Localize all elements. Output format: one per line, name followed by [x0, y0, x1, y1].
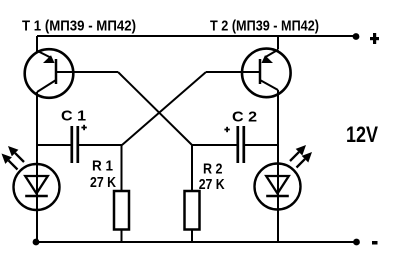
svg-text:R 1: R 1	[92, 159, 113, 175]
svg-text:Т 2 (МП39 - МП42): Т 2 (МП39 - МП42)	[210, 18, 319, 35]
svg-text:12V: 12V	[346, 122, 378, 147]
svg-text:R 2: R 2	[203, 162, 223, 178]
svg-text:C 1: C 1	[61, 108, 86, 125]
svg-text:27 K: 27 K	[199, 177, 225, 193]
svg-text:Т 1 (МП39 - МП42): Т 1 (МП39 - МП42)	[22, 18, 136, 35]
svg-text:27 K: 27 K	[90, 175, 116, 191]
svg-text:C 2: C 2	[232, 109, 257, 126]
